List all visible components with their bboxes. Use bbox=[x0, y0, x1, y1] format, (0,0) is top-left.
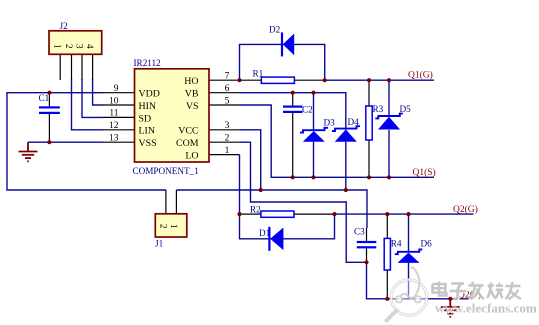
svg-text:D5: D5 bbox=[400, 104, 412, 114]
svg-text:VSS: VSS bbox=[139, 138, 157, 149]
svg-text:9: 9 bbox=[114, 84, 119, 94]
zener diode D3 bbox=[300, 118, 335, 142]
svg-text:1: 1 bbox=[225, 146, 230, 156]
wire D3 bottom lead bbox=[313, 142, 315, 178]
wire D5 top lead bbox=[388, 80, 390, 116]
svg-text:VS: VS bbox=[186, 101, 199, 112]
svg-text:HO: HO bbox=[184, 76, 198, 87]
svg-text:Q2(G): Q2(G) bbox=[453, 204, 478, 215]
svg-text:LO: LO bbox=[185, 151, 198, 162]
svg-text:D4: D4 bbox=[348, 117, 360, 127]
svg-text:VDD: VDD bbox=[139, 89, 160, 100]
op IC COMPONENT_1 IR2112 body bbox=[135, 69, 210, 162]
resistor R4 bbox=[384, 214, 402, 299]
svg-text:LIN: LIN bbox=[139, 126, 155, 137]
diode D2 bbox=[269, 25, 294, 57]
svg-text:D6: D6 bbox=[421, 239, 433, 249]
wire COM pin2 to C3 bottom bbox=[240, 142, 367, 262]
wire D6 top lead bbox=[408, 214, 410, 252]
svg-text:J2: J2 bbox=[60, 21, 69, 31]
wire D5 bottom lead bbox=[388, 130, 390, 177]
diode D1 bbox=[259, 227, 283, 251]
svg-text:D3: D3 bbox=[324, 118, 336, 128]
wire VB pin6 to D4 bbox=[240, 93, 346, 129]
svg-text:1: 1 bbox=[52, 44, 62, 49]
svg-text:IR2112: IR2112 bbox=[134, 58, 162, 68]
wire D1 loop bbox=[240, 214, 335, 239]
svg-text:12: 12 bbox=[109, 121, 119, 131]
svg-text:D1: D1 bbox=[259, 228, 271, 238]
svg-text:VB: VB bbox=[185, 89, 199, 100]
svg-text:10: 10 bbox=[109, 96, 119, 106]
wire LO pin1 down to R2 bbox=[239, 155, 241, 215]
svg-text:COMPONENT_1: COMPONENT_1 bbox=[133, 166, 200, 176]
svg-text:D2: D2 bbox=[269, 25, 281, 35]
svg-text:Q1(S): Q1(S) bbox=[413, 167, 436, 178]
watermark chinese text dian zi fa shao you bbox=[433, 282, 523, 301]
resistor R2 bbox=[240, 205, 335, 218]
svg-text:11: 11 bbox=[109, 109, 118, 119]
zener diode D4 bbox=[332, 117, 360, 142]
wire D4 bottom lead to VCC net bbox=[345, 142, 347, 190]
svg-text:R1: R1 bbox=[253, 69, 264, 79]
resistor R3 bbox=[366, 80, 384, 177]
svg-text:2: 2 bbox=[157, 224, 167, 229]
connector J1 pin stubs bbox=[166, 190, 177, 214]
svg-text:6: 6 bbox=[225, 84, 230, 94]
ground symbol for Q2(S) bbox=[441, 299, 460, 317]
svg-text:5: 5 bbox=[225, 96, 230, 106]
IC U1 pin stubs right bbox=[209, 80, 240, 154]
connector J1 body bbox=[155, 214, 187, 237]
svg-text:13: 13 bbox=[109, 134, 119, 144]
svg-text:C1: C1 bbox=[39, 93, 50, 103]
resistor R1 bbox=[240, 69, 325, 84]
connector J2 pin stubs bbox=[60, 54, 92, 80]
wire Q2(G) line bbox=[335, 213, 474, 215]
svg-text:R4: R4 bbox=[391, 239, 402, 249]
zener diode D5 bbox=[375, 104, 411, 130]
wire VCC pin3 down to VCC net bbox=[240, 130, 261, 190]
svg-text:C3: C3 bbox=[354, 227, 365, 237]
wire D6 bottom lead bbox=[408, 263, 410, 299]
wire D2 loop bbox=[240, 44, 325, 80]
svg-text:Q1(G): Q1(G) bbox=[408, 69, 433, 80]
svg-text:SD: SD bbox=[139, 113, 152, 124]
svg-text:C2: C2 bbox=[302, 105, 313, 115]
svg-text:1: 1 bbox=[168, 224, 178, 229]
capacitor C2 bbox=[283, 93, 313, 178]
svg-text:HIN: HIN bbox=[139, 101, 157, 112]
svg-text:2: 2 bbox=[225, 134, 230, 144]
wire J1 pin1 VCC net to C3 top bbox=[176, 190, 367, 228]
wire J2 pin2 to LIN bbox=[72, 79, 104, 130]
svg-text:7: 7 bbox=[225, 72, 230, 82]
wire VDD rail from C1 top to left edge, down and to J1 pin2 bbox=[7, 93, 166, 190]
wire VSS to ground bbox=[28, 141, 103, 143]
svg-text:COM: COM bbox=[176, 138, 199, 149]
connector J2 body bbox=[49, 31, 102, 55]
svg-text:R2: R2 bbox=[250, 205, 261, 215]
wire Q2(S) line bbox=[367, 262, 473, 299]
svg-text:www.elecfans.com: www.elecfans.com bbox=[435, 301, 537, 316]
zener diode D6 bbox=[395, 239, 432, 263]
wire J2 pin3 to SD bbox=[82, 79, 103, 117]
IC U1 pin stubs left bbox=[103, 93, 135, 143]
svg-text:3: 3 bbox=[225, 121, 230, 131]
wire J2 pin4 to HIN bbox=[93, 79, 103, 105]
svg-text:VCC: VCC bbox=[178, 126, 199, 137]
svg-text:J1: J1 bbox=[155, 239, 164, 249]
watermark logo magnifier bbox=[387, 267, 427, 321]
svg-text:3: 3 bbox=[73, 44, 83, 49]
capacitor C3 bbox=[354, 227, 376, 263]
wire D3 top lead bbox=[313, 93, 315, 131]
ground symbol for VSS bbox=[19, 142, 38, 161]
svg-text:4: 4 bbox=[84, 44, 94, 49]
svg-text:R3: R3 bbox=[373, 104, 384, 114]
wire VS pin5 to Q1(S) line bbox=[240, 105, 435, 177]
capacitor C1 bbox=[39, 93, 60, 143]
wire HO to Q1(G) bbox=[325, 79, 434, 81]
svg-text:2: 2 bbox=[63, 44, 73, 49]
